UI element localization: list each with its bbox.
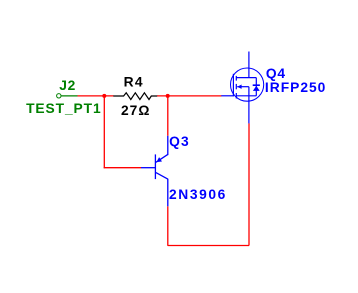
Q4 body circle <box>231 68 264 101</box>
svg-text:IRFP250: IRFP250 <box>265 80 326 95</box>
wire vertical left to Q3 base <box>103 96 105 168</box>
Q4 channel segment middle <box>235 84 237 89</box>
Q3 collector pin lead <box>167 179 169 207</box>
wire R4 to Q4 gate <box>157 95 222 97</box>
Q3 collector diagonal <box>156 173 168 180</box>
Q4 source internal stub <box>236 95 256 97</box>
wire vertical to Q3 emitter <box>167 96 169 136</box>
Q4 body-diode cathode bar <box>253 84 260 86</box>
svg-text:Q3: Q3 <box>169 134 190 149</box>
connector J2 lead <box>61 95 78 97</box>
Q3 base pin lead <box>141 167 155 169</box>
svg-text:R4: R4 <box>124 74 144 89</box>
Q3 emitter arrow <box>156 157 162 162</box>
resistor R4 <box>113 93 157 100</box>
wire horizontal to Q3 base <box>104 167 141 169</box>
Q4 channel segment bottom <box>235 93 237 99</box>
Q4 channel arrow <box>237 85 241 89</box>
Q4 drain pin lead <box>248 52 250 78</box>
Q4 channel segment top <box>235 76 237 81</box>
Q3 emitter pin lead <box>167 136 169 155</box>
Q4 drain internal stub <box>236 77 256 79</box>
svg-text:27Ω: 27Ω <box>121 103 150 118</box>
junction dot A <box>102 94 106 98</box>
wire right vertical to Q4 source <box>248 123 250 245</box>
Q4 body diode <box>253 86 260 91</box>
Q4 substrate arrow stub <box>237 86 249 88</box>
svg-text:Q4: Q4 <box>266 66 286 81</box>
svg-text:TEST_PT1: TEST_PT1 <box>26 101 101 116</box>
svg-text:2N3906: 2N3906 <box>169 187 227 202</box>
wire bottom rail <box>168 245 249 247</box>
Q4 gate pin lead <box>221 95 233 97</box>
transistor Q3 (PNP 2N3906) <box>141 136 168 207</box>
Q4 gate bar <box>232 74 234 97</box>
Q4 source pin lead <box>248 87 250 124</box>
Q3 emitter diagonal <box>156 154 168 162</box>
wire Q3 collector down <box>167 206 169 246</box>
svg-text:J2: J2 <box>59 78 76 93</box>
wire J2 to R4 <box>78 95 114 97</box>
mosfet Q4 group: N-channel power MOSFET <box>221 52 263 124</box>
Q4 body-diode vertical link <box>255 78 257 96</box>
junction dot B <box>166 94 170 98</box>
Q3 base bar <box>154 154 156 179</box>
connector J2 pin circle <box>57 94 61 98</box>
